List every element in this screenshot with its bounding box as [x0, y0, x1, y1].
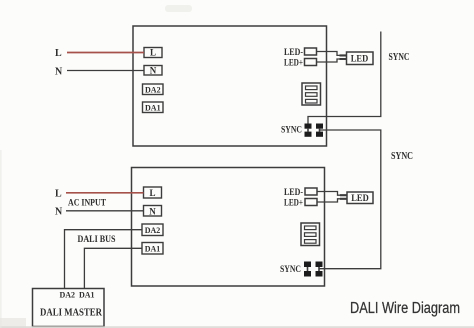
svg-text:N: N — [149, 207, 156, 217]
svg-text:DALI BUS: DALI BUS — [78, 235, 116, 245]
terminal DA1 (U1) — [143, 102, 164, 113]
terminal N (U1) — [144, 66, 162, 76]
wire LED- to LED1 — [317, 52, 347, 56]
svg-text:SYNC: SYNC — [281, 125, 302, 135]
svg-text:SYNC: SYNC — [389, 52, 410, 63]
svg-text:L: L — [55, 48, 62, 59]
svg-text:SYNC: SYNC — [280, 264, 301, 274]
terminal N (U2) — [144, 206, 162, 217]
svg-text:DA2: DA2 — [145, 226, 161, 235]
driver box U2 — [132, 168, 325, 287]
wire sync net A (up from S1) — [308, 32, 381, 124]
svg-text:N: N — [55, 67, 63, 78]
terminal DA1 (U2) — [142, 243, 163, 255]
terminal LED+ (U2) — [305, 199, 317, 206]
wire DA2 bus to DALI master — [65, 230, 143, 289]
LED load box LED1 — [347, 52, 374, 65]
svg-text:LED: LED — [351, 194, 369, 204]
svg-text:SYNC: SYNC — [391, 151, 413, 162]
wire N to U1 — [67, 70, 144, 72]
svg-text:L: L — [55, 189, 62, 200]
sync connector S2 (U2) — [304, 262, 323, 277]
svg-text:L: L — [149, 188, 155, 198]
terminal LED- (U2) — [305, 188, 317, 195]
wire LED- to LED2 — [317, 192, 347, 196]
terminal DA2 (U1) — [143, 84, 164, 95]
wire LED+ to LED1 — [317, 59, 347, 62]
svg-text:LED+: LED+ — [284, 198, 303, 208]
wire DA1 bus to DALI master — [84, 248, 142, 288]
terminal LED- (U1) — [305, 48, 317, 55]
svg-text:LED+: LED+ — [284, 58, 303, 68]
wire L to U2 (red) — [66, 192, 144, 194]
svg-text:LED-: LED- — [284, 47, 303, 57]
connector J1 — [302, 83, 321, 105]
svg-text:DA1: DA1 — [145, 245, 161, 254]
svg-text:AC INPUT: AC INPUT — [68, 199, 107, 209]
wire L to U1 (red) — [67, 52, 144, 54]
svg-text:DALI Wire Diagram: DALI Wire Diagram — [350, 300, 460, 317]
DALI MASTER box — [33, 289, 105, 327]
connector J2 — [301, 223, 320, 246]
svg-text:N: N — [55, 207, 63, 218]
terminal DA2 (U2) — [142, 224, 163, 236]
terminal LED+ (U1) — [305, 59, 317, 66]
wire LED+ to LED2 — [317, 199, 347, 202]
terminal L (U1) — [144, 48, 162, 58]
connector prongs LED2 — [340, 195, 347, 199]
svg-text:N: N — [150, 66, 157, 76]
svg-text:DA1: DA1 — [145, 104, 161, 113]
terminal L (U2) — [144, 187, 162, 198]
wire sync net B (S1 to S2) — [319, 130, 381, 269]
svg-text:DA1: DA1 — [79, 291, 95, 300]
connector prongs LED1 — [340, 55, 347, 59]
wire N to U2 — [66, 210, 144, 212]
svg-text:DA2: DA2 — [145, 86, 161, 95]
svg-text:DA2: DA2 — [60, 291, 76, 300]
driver box U1 — [133, 26, 327, 146]
svg-text:LED-: LED- — [284, 187, 303, 197]
svg-text:LED: LED — [351, 55, 369, 65]
sync connector S1 (U1) — [305, 124, 324, 137]
svg-text:L: L — [150, 48, 156, 58]
LED load box LED2 — [347, 192, 373, 204]
svg-text:DALI MASTER: DALI MASTER — [40, 307, 103, 319]
